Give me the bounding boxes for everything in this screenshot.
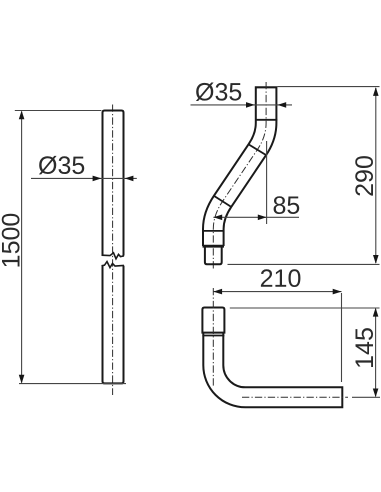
dimension 145 line bbox=[375, 309, 377, 397]
dimension D35 top line bbox=[191, 104, 293, 106]
dimension 145 extension line top bbox=[230, 307, 380, 309]
svg-text:Ø35: Ø35 bbox=[38, 152, 85, 180]
svg-text:1500: 1500 bbox=[0, 213, 26, 269]
dimension 85 arrow right-pointing bbox=[258, 215, 267, 221]
dimension 290 arrow down bbox=[373, 255, 379, 264]
S-pipe body dark outline bbox=[213, 86, 266, 246]
S-pipe centerline bbox=[213, 82, 266, 270]
dimension 1500 extension line top bbox=[15, 110, 102, 112]
dimension 210 line bbox=[213, 291, 341, 293]
S-pipe joint line sleeve bottom bbox=[255, 119, 277, 121]
svg-text:210: 210 bbox=[260, 265, 302, 293]
S-pipe joint line sleeve top horizontal bbox=[202, 230, 224, 232]
svg-text:290: 290 bbox=[351, 155, 379, 197]
dimension 290 extension line top bbox=[277, 86, 379, 88]
dimension 210 extension line right bbox=[341, 293, 343, 382]
S-pipe joint line lower diagonal bbox=[214, 196, 232, 208]
S-pipe joint line upper diagonal bbox=[248, 144, 267, 155]
dimension 85 line bbox=[213, 216, 299, 218]
dimension 145 arrow down bbox=[373, 389, 379, 398]
svg-text:Ø35: Ø35 bbox=[195, 78, 242, 106]
L-pipe body dark outline bbox=[213, 333, 343, 397]
centerline of left pipe bbox=[112, 105, 114, 396]
dimension D35 top arrow right-pointing bbox=[246, 102, 255, 108]
dimension 145 arrow up bbox=[373, 308, 379, 317]
L-pipe sleeve outline bbox=[202, 308, 224, 333]
dimension D35 top arrow left-pointing bbox=[277, 102, 286, 108]
pipe P1 lower segment outline bbox=[103, 266, 124, 384]
dimension 1500 line bbox=[21, 112, 23, 383]
L-pipe vertical centerline bbox=[212, 288, 214, 386]
dimension 210 arrow right-pointing bbox=[333, 289, 342, 295]
L-pipe sleeve second line bbox=[202, 335, 224, 337]
dimension D35 left arrow left-pointing bbox=[125, 176, 134, 182]
L-pipe body white fill bbox=[213, 333, 341, 397]
dimension 145 extension line bottom bbox=[352, 396, 380, 398]
dimension D35 left arrow right-pointing bbox=[93, 176, 102, 182]
break symbol upper zigzag bbox=[102, 253, 125, 259]
dimension 1500 arrow down bbox=[19, 375, 25, 384]
svg-text:85: 85 bbox=[272, 192, 300, 220]
dimension 290 extension line bottom bbox=[228, 263, 380, 265]
L-pipe horizontal centerline bbox=[242, 396, 348, 398]
S-pipe body white fill bbox=[213, 88, 266, 245]
dimension 85 arrow left-pointing bbox=[213, 215, 222, 221]
dimension 290 line bbox=[375, 88, 377, 263]
dimension 1500 arrow up bbox=[19, 111, 25, 120]
break symbol lower zigzag bbox=[102, 262, 125, 268]
dimension 1500 extension line bottom bbox=[19, 383, 126, 385]
S-pipe bottom tail outline bbox=[205, 248, 222, 265]
dimension 85 extension line vertical bbox=[266, 141, 268, 224]
S-pipe collar thick line bbox=[203, 245, 225, 248]
svg-text:145: 145 bbox=[351, 327, 379, 369]
pipe P1 upper segment outline bbox=[103, 111, 124, 256]
dimension 290 arrow up bbox=[373, 87, 379, 96]
dimension D35 left line bbox=[31, 177, 137, 179]
dimension 210 arrow left-pointing bbox=[213, 289, 222, 295]
